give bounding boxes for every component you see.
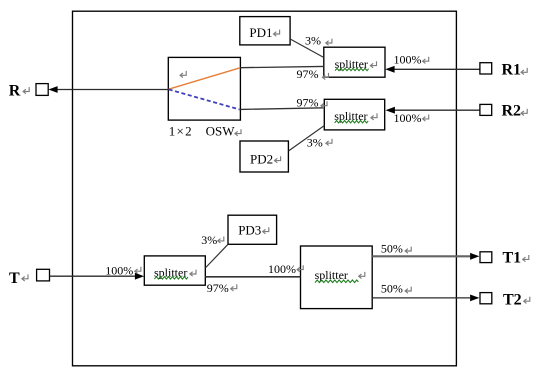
svg-text:3%: 3% bbox=[305, 33, 321, 47]
svg-text:1×2: 1×2 bbox=[169, 124, 192, 139]
wire S3 to PD3 (3% tap) bbox=[205, 244, 228, 268]
wire OSW to splitter S1 bbox=[240, 66, 323, 67]
label 50% (T1) bbox=[381, 242, 411, 256]
label 3% (PD2) bbox=[307, 135, 332, 149]
OSW box U1 bbox=[168, 57, 240, 120]
wire PD1 to S1 (3% tap) bbox=[289, 39, 324, 58]
svg-text:splitter: splitter bbox=[315, 268, 348, 282]
svg-text:3%: 3% bbox=[307, 135, 323, 149]
pilcrow inside OSW bbox=[180, 71, 186, 78]
label 3% (PD1) bbox=[305, 33, 332, 47]
port R2 square bbox=[480, 104, 492, 115]
label 50% (T2) bbox=[381, 282, 411, 296]
label 100% (T) bbox=[105, 263, 141, 277]
wire T to splitter S3 with arrowhead bbox=[50, 273, 145, 280]
svg-text:3%: 3% bbox=[201, 233, 217, 247]
label 97% (S1) bbox=[297, 67, 329, 81]
splitter box S3 bbox=[144, 256, 205, 285]
wire R1 to S1 with arrowhead bbox=[385, 66, 480, 73]
svg-text:50%: 50% bbox=[381, 282, 403, 296]
wire S4 to T1 with arrowhead bbox=[372, 253, 479, 260]
svg-text:splitter: splitter bbox=[334, 109, 367, 123]
label 100% (R1) bbox=[394, 52, 429, 66]
svg-text:PD1: PD1 bbox=[249, 25, 272, 40]
wire OSW to splitter S2 bbox=[240, 108, 324, 110]
enclosure rectangle bbox=[73, 11, 457, 366]
svg-text:100%: 100% bbox=[105, 263, 133, 277]
splitter box S4 bbox=[301, 246, 373, 309]
port R label bbox=[9, 83, 29, 100]
port T2 square bbox=[480, 293, 492, 304]
splitter box S1 bbox=[324, 47, 385, 77]
port R1 square bbox=[480, 63, 492, 74]
svg-text:OSW: OSW bbox=[206, 124, 236, 139]
label 3% (PD3) bbox=[201, 233, 224, 247]
svg-text:T: T bbox=[9, 270, 20, 287]
wire S3 to S4 bbox=[205, 276, 300, 278]
splitter box S2 bbox=[324, 99, 384, 130]
svg-text:100%: 100% bbox=[394, 52, 422, 66]
port T square bbox=[37, 269, 50, 281]
svg-text:100%: 100% bbox=[268, 262, 296, 276]
PD3 box bbox=[228, 215, 277, 244]
wire R2 to S2 with arrowhead bbox=[386, 107, 480, 114]
port T1 square bbox=[480, 252, 492, 263]
label 97% (S3) bbox=[207, 281, 237, 295]
wire S4 to T2 with arrowhead bbox=[372, 295, 479, 302]
svg-text:PD2: PD2 bbox=[250, 152, 273, 167]
svg-text:100%: 100% bbox=[394, 111, 422, 125]
PD2 box bbox=[240, 141, 288, 172]
svg-text:50%: 50% bbox=[381, 242, 403, 256]
OSW blue dashed path bbox=[169, 89, 240, 109]
label 1x2 OSW bbox=[169, 124, 241, 139]
svg-text:T1: T1 bbox=[503, 249, 522, 266]
svg-text:R: R bbox=[9, 83, 21, 100]
port R1 label bbox=[502, 62, 528, 79]
svg-text:splitter: splitter bbox=[335, 57, 368, 71]
wire OSW to R with arrowhead bbox=[48, 86, 168, 93]
label 100% (R2) bbox=[394, 111, 429, 125]
svg-text:97%: 97% bbox=[207, 281, 229, 295]
svg-text:T2: T2 bbox=[503, 292, 522, 309]
port T1 label bbox=[503, 249, 529, 266]
port R square bbox=[36, 84, 48, 96]
label 100% (S4) bbox=[268, 262, 303, 276]
PD1 box bbox=[240, 17, 290, 45]
port R2 label bbox=[502, 102, 528, 119]
wire PD2 to S2 (3% tap) bbox=[289, 126, 325, 151]
svg-text:PD3: PD3 bbox=[238, 223, 261, 238]
svg-text:97%: 97% bbox=[297, 96, 319, 110]
svg-text:splitter: splitter bbox=[154, 265, 187, 279]
port T label bbox=[9, 270, 28, 287]
OSW orange path bbox=[169, 68, 240, 89]
port T2 label bbox=[503, 292, 530, 309]
svg-text:R2: R2 bbox=[502, 102, 522, 119]
svg-text:97%: 97% bbox=[297, 67, 319, 81]
svg-text:R1: R1 bbox=[502, 62, 522, 79]
label 97% (S2) bbox=[297, 96, 328, 110]
